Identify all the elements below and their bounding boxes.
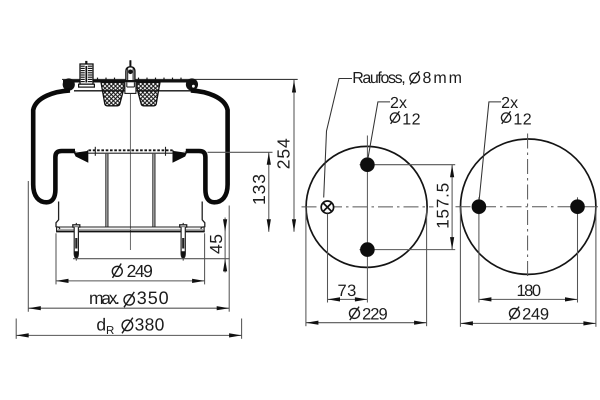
arrowhead dim 249 left xyxy=(56,279,69,283)
bolt hole dot right xyxy=(570,199,585,214)
svg-text:157.5: 157.5 xyxy=(434,183,453,229)
label 2x Ø12 first xyxy=(390,95,421,128)
rubber bumper right half (cross-hatched) xyxy=(137,82,160,106)
arrowhead dim 73 left xyxy=(328,297,341,301)
label max Ø350 xyxy=(89,288,169,308)
ext line max350 left xyxy=(27,181,29,312)
centerline of air spring xyxy=(129,60,131,250)
air fitting (threaded stud) xyxy=(79,61,95,87)
top plate band xyxy=(63,80,192,83)
dot cross stubs circle2 xyxy=(478,197,480,215)
133 top extension line xyxy=(208,151,273,153)
dim line 45 xyxy=(224,218,226,273)
arrowhead dim 249 plate right xyxy=(583,321,596,325)
dot reference lines to 157.5 xyxy=(375,164,456,166)
svg-text:45: 45 xyxy=(206,234,226,254)
bolt hole dot top xyxy=(360,157,375,172)
arrowhead dim 180 right xyxy=(565,297,578,301)
leader 2x Ø12 second xyxy=(479,102,501,200)
arrowhead dim 249 plate left xyxy=(460,321,473,325)
arrowhead dim 229 left xyxy=(306,321,319,325)
rivet ticks on top plate xyxy=(98,78,182,80)
svg-text:8mm: 8mm xyxy=(423,70,463,87)
svg-text:Raufoss,: Raufoss, xyxy=(352,70,406,87)
arrowhead dim 45 bottom xyxy=(223,259,227,272)
ext lines Ø249 circle2 xyxy=(459,207,461,327)
leader Raufoss xyxy=(324,79,352,198)
svg-text:12: 12 xyxy=(402,112,420,129)
ext lines Ø229 xyxy=(305,207,307,326)
dim line 180 xyxy=(479,298,578,300)
circle 1 vertical centerline xyxy=(366,136,368,303)
dim line 254 xyxy=(293,80,295,232)
bottom plate xyxy=(56,226,205,228)
arrowhead dim 157.5 top xyxy=(450,165,454,178)
bellows outline left (thick rubber wall + lower lobe) xyxy=(33,90,75,202)
svg-text:380: 380 xyxy=(135,315,165,335)
plate underside line xyxy=(74,90,191,92)
texts right view xyxy=(338,183,550,324)
ext tick dR left xyxy=(15,319,17,339)
bolt end reference line (45 bottom) xyxy=(73,258,230,260)
dim line Ø229 xyxy=(306,322,427,324)
circle 1 horizontal centerline (dashed) xyxy=(302,206,434,208)
top reference line (254 top) / plate top surface extended xyxy=(62,78,298,80)
svg-text:R: R xyxy=(106,325,114,337)
label dR Ø380 xyxy=(96,314,164,337)
circle 2 vertical centerline (dashed) xyxy=(527,134,529,280)
dim line 133 xyxy=(268,152,270,232)
rubber bumper left half (cross-hatched) xyxy=(101,82,124,106)
arrowhead dim 254 bottom xyxy=(292,219,296,232)
Raufoss hole symbol xyxy=(321,201,333,213)
arrowhead dim 133 top xyxy=(267,152,271,165)
centre bolt on top plate xyxy=(126,60,135,80)
svg-text:2x: 2x xyxy=(390,95,407,112)
arrowhead dim max350 right xyxy=(217,306,230,310)
svg-text:180: 180 xyxy=(517,282,542,300)
svg-text:12: 12 xyxy=(513,112,531,129)
svg-text:max.: max. xyxy=(89,288,120,308)
ext lines 180 from dots xyxy=(478,214,480,303)
svg-text:2x: 2x xyxy=(501,95,518,112)
bottom plate left upturn xyxy=(57,227,60,232)
svg-text:254: 254 xyxy=(274,138,294,169)
svg-text:229: 229 xyxy=(362,305,388,323)
circle 2 horizontal centerline (dashed) xyxy=(456,206,599,208)
mounting bolt right xyxy=(180,223,187,261)
bead clamp wedge left xyxy=(73,150,88,162)
piston top serrated line xyxy=(89,149,173,151)
ext line Ø249 right xyxy=(204,233,206,284)
arrowhead dim 133 bottom xyxy=(267,219,271,232)
arrowhead dim 229 right xyxy=(414,321,427,325)
rolled plate edge left (bead blob) xyxy=(63,78,75,90)
piston central tube walls xyxy=(105,154,107,227)
bolt hole dot left xyxy=(472,199,487,214)
piston outer wall left with foot xyxy=(56,202,59,228)
dim line 157.5 xyxy=(451,165,453,250)
arrowhead dim dR380 left xyxy=(16,333,29,337)
arrowhead dim 45 top xyxy=(223,219,227,232)
bottom plate right upturn xyxy=(201,227,204,232)
ext line Ø249 left xyxy=(55,233,57,284)
arrowhead dim 157.5 bottom xyxy=(450,237,454,250)
label 2x Ø12 second xyxy=(501,95,532,128)
arrowhead dim dR380 right xyxy=(229,333,242,337)
svg-text:d: d xyxy=(96,314,106,334)
rolled plate edge right (bead blob) xyxy=(186,78,198,90)
texts left view xyxy=(89,138,294,337)
dim line dR Ø380 xyxy=(16,334,241,336)
piston top tick marks xyxy=(94,147,96,156)
dim line Ø249 circle2 xyxy=(460,322,596,324)
circle 2 (Ø249 plate) xyxy=(461,139,596,274)
label Ø249 circle2 xyxy=(510,305,550,323)
label Ø229 xyxy=(350,305,388,323)
ext tick dR right xyxy=(241,319,243,339)
label Ø249 bottom plate xyxy=(112,261,153,281)
bolt hole dot bottom xyxy=(360,242,375,257)
piston top line xyxy=(88,152,173,154)
arrowhead dim max350 left xyxy=(28,306,41,310)
bead clamp wedge right xyxy=(173,150,188,162)
dim line Ø249 xyxy=(56,280,205,282)
leader 2x Ø12 first xyxy=(368,102,390,158)
arrowhead dim 249 right xyxy=(192,279,205,283)
ext line max350 right xyxy=(228,206,230,312)
arrowhead dim 180 left xyxy=(479,297,492,301)
piston outer wall right with foot xyxy=(202,202,205,228)
bumper centre insert xyxy=(125,82,136,93)
circle 1 (Ø229 plate) xyxy=(306,146,427,267)
svg-text:249: 249 xyxy=(127,261,153,281)
svg-text:133: 133 xyxy=(249,174,269,205)
svg-text:249: 249 xyxy=(522,305,549,323)
bellows outline right (thick rubber wall + lower lobe) xyxy=(186,90,228,202)
svg-text:73: 73 xyxy=(338,282,357,300)
arrowhead dim 254 top xyxy=(292,80,296,93)
mounting bolt left xyxy=(73,223,80,261)
ext line 73 (from Raufoss hole) xyxy=(327,214,329,303)
svg-text:350: 350 xyxy=(137,288,169,308)
dot cross stubs circle1 xyxy=(360,164,376,166)
dim line max Ø350 xyxy=(28,307,229,309)
arrowhead dim 73 right xyxy=(355,297,368,301)
dim line 73 xyxy=(328,298,368,300)
